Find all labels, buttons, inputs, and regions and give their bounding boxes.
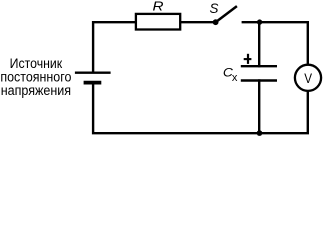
- wire: top-left corner (battery branch to resistor): [93, 22, 136, 72]
- node: junction dot top of capacitor branch: [257, 19, 262, 24]
- switch S lever (open): [216, 6, 237, 22]
- svg-text:S: S: [210, 1, 219, 16]
- label: Источник постоянного напряжения (DC voltage source): [0, 56, 71, 98]
- node: junction dot bottom of capacitor branch: [257, 130, 263, 136]
- wire: switch to top-right corner and down to voltmeter: [242, 22, 308, 66]
- svg-text:V: V: [304, 70, 312, 86]
- switch S contact dot: [213, 19, 219, 25]
- voltmeter PV1 circle: [295, 65, 321, 91]
- battery GB1 negative short thick plate: [84, 81, 102, 85]
- wire: left vertical lower + bottom rail + right vertical lower: [93, 82, 308, 134]
- polarity + mark: [244, 54, 252, 64]
- wire: capacitor bottom lead: [258, 79, 260, 134]
- battery GB1 positive long plate: [75, 71, 111, 73]
- svg-text:x: x: [232, 72, 238, 84]
- resistor R body: [136, 14, 180, 30]
- svg-text:напряжения: напряжения: [1, 83, 71, 98]
- capacitor Cx bottom plate: [241, 79, 277, 82]
- wire: capacitor top lead: [258, 22, 260, 67]
- capacitor Cx top plate: [241, 65, 277, 67]
- wire: resistor to switch: [181, 21, 214, 23]
- svg-text:R: R: [153, 0, 164, 13]
